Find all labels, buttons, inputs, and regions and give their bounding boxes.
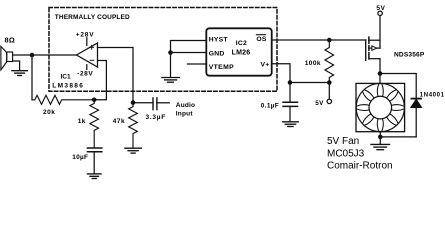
- node A junction dot: [30, 53, 35, 58]
- svg-text:+28V: +28V: [76, 32, 95, 39]
- svg-text:IC2: IC2: [236, 40, 247, 47]
- capacitor 3.3uF: [153, 98, 157, 110]
- wire speaker bottom terminal: [13, 61, 20, 70]
- op-amp V+ pin: [86, 38, 88, 46]
- thermally coupled dashed box: [49, 8, 277, 92]
- IC2 LM26 body: [206, 28, 271, 75]
- fan hub circle: [369, 96, 392, 119]
- svg-text:LM26: LM26: [232, 49, 251, 56]
- fan outer circle: [356, 83, 404, 131]
- svg-text:5V: 5V: [315, 100, 324, 107]
- ground (fan): [371, 144, 390, 149]
- plus input marker: [90, 45, 94, 49]
- wire audio input stub: [157, 102, 169, 104]
- capacitor 0.1uF: [283, 102, 298, 106]
- svg-text:THERMALLY COUPLED: THERMALLY COUPLED: [55, 14, 130, 21]
- svg-text:47k: 47k: [113, 118, 125, 125]
- resistor 20k: [32, 95, 94, 104]
- resistor 1k: [90, 100, 99, 148]
- ground (10uF): [88, 174, 102, 179]
- resistor 47k: [129, 103, 138, 148]
- svg-text:OS: OS: [256, 36, 266, 43]
- svg-text:Audio: Audio: [176, 102, 195, 109]
- wire VTEMP stub: [188, 63, 207, 65]
- 5V terminal circle: [327, 99, 331, 103]
- drain junction dot: [378, 71, 383, 76]
- wire fan return to diode anode: [380, 136, 416, 138]
- junction dot OS/100k: [327, 38, 332, 43]
- wire node A down to feedback row: [31, 55, 33, 100]
- svg-text:Comair-Rotron: Comair-Rotron: [327, 161, 393, 172]
- fan blades: [356, 84, 404, 132]
- op-amp IC1 LM3886: [77, 43, 98, 67]
- ground (47k): [125, 148, 141, 153]
- svg-text:-28V: -28V: [77, 70, 93, 77]
- wire drain to diode: [380, 74, 416, 99]
- svg-text:IC1: IC1: [61, 73, 72, 80]
- op-amp V- pin: [86, 65, 88, 70]
- node C junction dot: [131, 100, 136, 105]
- capacitor 10uF: [87, 148, 101, 152]
- speaker LS1 (8 ohm): [1, 46, 13, 70]
- svg-text:HYST: HYST: [209, 37, 229, 44]
- fan M1 frame: [356, 83, 405, 131]
- svg-text:5V: 5V: [376, 5, 385, 12]
- svg-text:1k: 1k: [78, 118, 86, 125]
- wire fan bottom terminal: [379, 132, 381, 144]
- wire node D to node E: [290, 82, 329, 84]
- wire 0.1uF to ground: [289, 106, 291, 121]
- junction dot fan return: [378, 135, 383, 140]
- wire V+ pin: [272, 64, 290, 83]
- wire GND pin: [171, 52, 207, 54]
- wire node E to 5V terminal: [328, 83, 330, 100]
- svg-text:100k: 100k: [305, 60, 321, 67]
- ground (0.1uF): [283, 122, 299, 127]
- svg-text:20k: 20k: [43, 109, 55, 116]
- svg-text:Input: Input: [176, 111, 194, 118]
- wire speaker top terminal to op-amp output: [13, 54, 77, 56]
- svg-text:0.1µF: 0.1µF: [261, 102, 279, 109]
- wire noninverting input to node C: [98, 48, 134, 103]
- svg-text:MC05J3: MC05J3: [327, 148, 365, 159]
- ground (IC2): [162, 78, 179, 83]
- svg-text:3.3µF: 3.3µF: [146, 114, 167, 121]
- resistor 100k: [325, 40, 334, 83]
- node B junction dot: [92, 98, 97, 103]
- wire to ground: [170, 53, 172, 78]
- diode 1N4001: [411, 99, 422, 137]
- svg-text:8Ω: 8Ω: [5, 35, 16, 44]
- node E junction dot: [327, 80, 332, 85]
- wire node B to inverting input: [94, 61, 106, 100]
- svg-text:1N4001: 1N4001: [420, 92, 445, 98]
- 5V supply terminal circle: [378, 11, 382, 15]
- node D junction dot: [288, 80, 293, 85]
- svg-text:10µF: 10µF: [72, 154, 88, 161]
- transistor Q1 NDS356P p-channel MOSFET: [366, 16, 380, 84]
- wire node D down to 0.1uF: [289, 83, 291, 103]
- wire HYST pin: [171, 41, 207, 53]
- wire 10uF to ground: [93, 152, 95, 174]
- wire OS output to gate: [272, 39, 366, 41]
- wire node C to coupling cap: [133, 102, 153, 104]
- junction dot HYST/GND: [168, 50, 173, 55]
- svg-text:LM3886: LM3886: [52, 83, 84, 90]
- ground (speaker): [12, 71, 27, 76]
- svg-text:VTEMP: VTEMP: [209, 64, 234, 71]
- svg-text:V+: V+: [261, 61, 270, 68]
- minus input marker: [90, 59, 94, 61]
- svg-text:5V Fan: 5V Fan: [327, 136, 359, 147]
- svg-text:NDS356P: NDS356P: [394, 52, 425, 59]
- svg-text:GND: GND: [209, 50, 225, 57]
